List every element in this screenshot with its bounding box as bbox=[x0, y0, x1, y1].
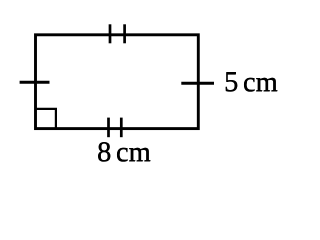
right side single tick mark bbox=[181, 82, 214, 85]
top side double tick mark 2 bbox=[123, 24, 126, 43]
bottom side double tick mark 2 bbox=[120, 118, 123, 138]
bottom side double tick mark 1 bbox=[107, 118, 110, 138]
right-angle marker at bottom-left corner bbox=[36, 109, 56, 129]
rectangle ABCD outline bbox=[36, 35, 199, 129]
label 8 cm (bottom side) bbox=[97, 137, 151, 169]
left side single tick mark bbox=[20, 81, 50, 84]
label 5 cm (right side) bbox=[224, 67, 278, 99]
top side double tick mark 1 bbox=[109, 24, 112, 43]
